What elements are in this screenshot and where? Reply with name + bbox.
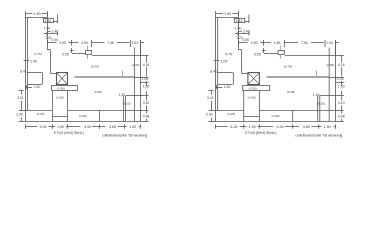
right panel drawing	[206, 11, 345, 137]
left panel drawing	[16, 11, 149, 137]
